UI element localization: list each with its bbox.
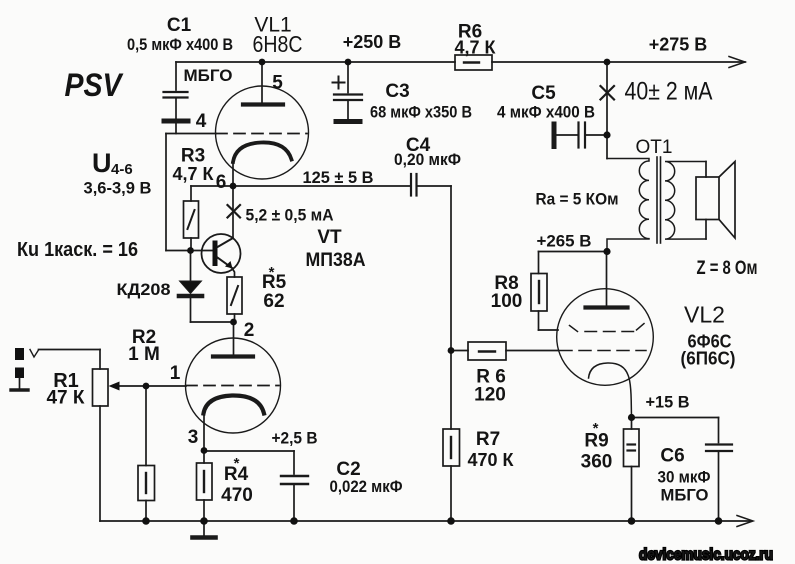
svg-text:Кu 1каск. = 16: Кu 1каск. = 16 (17, 239, 138, 261)
svg-text:5,2 ± 0,5 мА: 5,2 ± 0,5 мА (246, 206, 334, 225)
svg-text:*: * (593, 420, 599, 437)
svg-text:4-6: 4-6 (111, 161, 133, 178)
svg-text:62: 62 (263, 291, 284, 312)
VL1b grid lead pin 1 (117, 385, 186, 387)
capacitor C1 (164, 62, 189, 134)
svg-text:U: U (92, 148, 112, 178)
svg-text:VT: VT (317, 227, 342, 248)
svg-text:С3: С3 (385, 81, 409, 102)
svg-text:4,7 К: 4,7 К (454, 38, 496, 58)
node +275 junction (604, 59, 611, 66)
node X mark 5.2mA (228, 205, 241, 218)
node bus R4 (200, 517, 208, 525)
capacitor C4 (411, 174, 451, 196)
node bus R9 (628, 517, 636, 525)
svg-text:R7: R7 (476, 429, 500, 450)
svg-text:МП38А: МП38А (306, 250, 366, 271)
svg-text:47 К: 47 К (46, 388, 84, 409)
transformer OT1 core (657, 157, 661, 243)
svg-text:4,7 К: 4,7 К (172, 164, 214, 184)
wire bottom bus (100, 520, 751, 522)
VL1a anode lead pin 5 (261, 62, 263, 103)
node pin6 junction (230, 183, 237, 190)
svg-text:6Н8С: 6Н8С (253, 31, 303, 57)
VL1b grid dashed (186, 385, 279, 387)
svg-text:*: * (269, 264, 275, 281)
node arrowhead +275V (729, 57, 745, 68)
VL2 screen grid dashed (570, 324, 645, 332)
node pin5 junction (259, 59, 266, 66)
svg-text:470: 470 (221, 485, 253, 506)
svg-text:0,022 мкФ: 0,022 мкФ (330, 477, 403, 496)
wire anode lead pin 2 (233, 322, 235, 355)
svg-text:+275 В: +275 В (649, 35, 708, 55)
svg-text:40± 2 мА: 40± 2 мА (625, 78, 713, 106)
svg-text:360: 360 (581, 452, 613, 473)
node grid1 junction (143, 383, 150, 390)
wire grid VL1a to left column (166, 134, 216, 251)
transistor VT MP38A (191, 234, 241, 277)
ground (193, 521, 216, 538)
transformer OT1 primary (607, 135, 649, 252)
svg-text:68 мкФ х350 В: 68 мкФ х350 В (370, 103, 472, 122)
node bus R2 (142, 517, 150, 525)
svg-text:МБГО: МБГО (661, 486, 709, 505)
svg-text:3: 3 (188, 427, 199, 448)
diode KD208 (179, 251, 234, 323)
svg-text:3,6-3,9 В: 3,6-3,9 В (84, 179, 152, 198)
VL2 anode lead (606, 252, 608, 307)
svg-text:0,20 мкФ: 0,20 мкФ (394, 150, 461, 169)
resistor R7 (443, 429, 460, 521)
op-amp (tube) VL1b envelope (186, 338, 281, 433)
resistor R5 (227, 277, 242, 322)
node arrowhead bus (737, 516, 753, 527)
node C5 junction (603, 131, 610, 138)
svg-text:100: 100 (491, 291, 523, 312)
node pin3 junction (201, 447, 208, 454)
svg-text:КД208: КД208 (117, 280, 171, 299)
svg-text:4 мкФ х400 В: 4 мкФ х400 В (497, 103, 595, 122)
svg-text:С6: С6 (660, 446, 684, 467)
VL1b cathode arc (204, 395, 265, 413)
svg-text:С5: С5 (531, 83, 556, 104)
resistor R2 (138, 386, 155, 521)
wire +265V (539, 252, 608, 274)
svg-text:PSV: PSV (65, 67, 124, 103)
node wiper arrowhead (109, 382, 120, 391)
svg-text:1 М: 1 М (128, 344, 160, 365)
node +265 junction (603, 248, 610, 255)
op-amp (tube) VL1a envelope (216, 86, 309, 179)
capacitor C2 (204, 451, 308, 521)
node +15 junction (628, 414, 635, 421)
VL1a cathode lead pin 6 (232, 162, 234, 186)
tube VL2 envelope (557, 289, 654, 386)
svg-text:0,5 мкФ х400 В: 0,5 мкФ х400 В (127, 35, 233, 54)
svg-text:4: 4 (196, 111, 207, 132)
wire +15V (632, 417, 719, 419)
wire collector column (232, 186, 234, 238)
VL1a cathode arc (233, 142, 292, 162)
VL1a anode bar (243, 102, 283, 106)
resistor R9 (624, 418, 640, 522)
svg-text:ОТ1: ОТ1 (636, 137, 673, 158)
VL2 anode bar (586, 305, 628, 309)
wire top rail left (+250V segment) (176, 61, 455, 63)
capacitor C5 (554, 123, 607, 148)
svg-text:С1: С1 (167, 15, 192, 36)
wire x607 column (606, 62, 608, 135)
svg-text:Ra = 5 КОм: Ra = 5 КОм (536, 190, 619, 209)
svg-text:VL2: VL2 (684, 302, 725, 328)
resistor R3 (184, 186, 199, 251)
resistor R6 top (455, 55, 492, 70)
VL2 cathode arc (589, 363, 632, 418)
svg-text:МБГО: МБГО (183, 66, 232, 85)
svg-text:Z = 8 Ом: Z = 8 Ом (697, 258, 758, 279)
node R6 junction (448, 347, 455, 354)
node base junction (187, 247, 194, 254)
potentiometer R1 (93, 350, 109, 522)
VL1b cathode lead pin 3 (203, 414, 205, 451)
svg-text:+15 В: +15 В (646, 393, 690, 412)
node C3 junction (345, 59, 352, 66)
svg-text:1: 1 (170, 363, 181, 384)
svg-text:2: 2 (244, 320, 255, 341)
node bus R7 (447, 517, 455, 525)
svg-text:120: 120 (474, 385, 506, 406)
svg-text:+265 В: +265 В (537, 232, 592, 251)
resistor R8 (531, 274, 558, 331)
capacitor C3 (333, 62, 363, 122)
transformer OT1 secondary (665, 162, 706, 240)
svg-text:+2,5 В: +2,5 В (272, 429, 318, 448)
svg-text:+250 В: +250 В (343, 32, 402, 52)
VL1b anode bar (213, 354, 253, 358)
svg-text:30 мкФ: 30 мкФ (658, 468, 711, 487)
wire cathode node y186 (191, 185, 411, 187)
svg-text:6: 6 (216, 172, 227, 193)
node input jack (11, 348, 100, 390)
node X mark 40mA (601, 86, 615, 100)
svg-text:125 ± 5 В: 125 ± 5 В (303, 168, 374, 187)
svg-text:5: 5 (272, 73, 283, 94)
VL2 control grid dashed (560, 350, 646, 352)
capacitor C6 (706, 418, 732, 522)
VL1a grid dashed (216, 133, 307, 135)
node bus C2 (290, 517, 298, 525)
svg-text:*: * (234, 455, 240, 472)
wire top rail right (+275V segment) (492, 61, 745, 63)
node bus C6 (715, 517, 723, 525)
svg-text:(6П6С): (6П6С) (681, 349, 736, 369)
svg-text:devicemusic.ucoz.ru: devicemusic.ucoz.ru (639, 547, 773, 564)
wire right column x451 (450, 186, 452, 429)
resistor R4 (197, 451, 213, 522)
speaker (696, 162, 735, 239)
node pin2 junction (230, 319, 237, 326)
resistor R6 120 (451, 342, 559, 360)
svg-text:470 К: 470 К (467, 450, 514, 470)
